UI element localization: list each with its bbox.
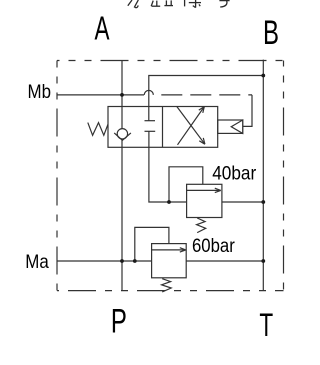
crossed flow arrows in right position xyxy=(178,107,205,145)
clipped caption char 1 (gong) xyxy=(128,0,139,8)
valve V1 body outline xyxy=(108,107,218,148)
relief valve RV2 spring xyxy=(162,279,172,292)
60bar relief pilot loop xyxy=(135,227,169,261)
relief valve RV2 flow arrow xyxy=(152,249,185,251)
clipped caption char 2 (neng) xyxy=(151,0,173,6)
svg-text:Ma: Ma xyxy=(25,251,49,273)
junction node RV1 outlet on B xyxy=(261,200,265,204)
svg-text:P: P xyxy=(111,302,127,340)
spring (valve return) xyxy=(88,123,108,136)
valve body boundary phantom border bottom edge xyxy=(57,290,284,292)
port A / P vertical line xyxy=(121,61,123,291)
pilot control dashed line to actuator xyxy=(153,94,252,96)
svg-text:60bar: 60bar xyxy=(192,236,235,257)
clipped caption char 3 (te) xyxy=(185,0,201,8)
blocked port bars xyxy=(145,120,156,122)
check valve ball xyxy=(117,129,127,139)
svg-text:T: T xyxy=(259,307,273,343)
pilot actuator triangle xyxy=(231,120,243,133)
wire Ma lead xyxy=(57,260,152,262)
40bar relief pilot loop xyxy=(169,167,203,202)
relief valve RV1 outlet wire xyxy=(222,201,263,203)
wire from valve to 40bar relief inlet xyxy=(149,131,187,202)
junction node RV2 outlet on B xyxy=(261,259,265,263)
svg-text:40bar: 40bar xyxy=(212,163,257,184)
svg-text:B: B xyxy=(263,14,279,52)
wire Mb lead xyxy=(57,94,144,96)
relief valve RV1 spring xyxy=(197,218,206,233)
valve body boundary phantom border left edge xyxy=(56,61,58,291)
junction node pilot supply on B xyxy=(261,74,265,78)
pilot supply line from B xyxy=(149,76,263,121)
check valve seat xyxy=(114,133,131,140)
wire crossing hop xyxy=(144,90,153,94)
relief valve RV1 body (40bar) xyxy=(187,184,222,217)
relief valve RV2 body (60bar) xyxy=(152,244,187,278)
junction node RV2 pilot tap xyxy=(133,259,137,263)
valve position divider xyxy=(162,107,164,148)
svg-text:Mb: Mb xyxy=(28,82,52,103)
valve body boundary phantom border right edge xyxy=(283,61,285,291)
relief valve RV2 outlet wire xyxy=(186,260,263,262)
relief valve RV1 flow arrow xyxy=(187,189,220,191)
svg-text:A: A xyxy=(95,10,110,47)
junction node Mb-P xyxy=(120,93,124,97)
pilot actuator box xyxy=(218,120,243,133)
junction node Ma-P xyxy=(120,259,124,263)
junction node RV1 pilot tap xyxy=(167,200,171,204)
port B / T vertical line xyxy=(262,60,264,291)
clipped caption char 4 (hao) xyxy=(219,1,229,7)
valve body boundary phantom border top edge xyxy=(57,60,284,62)
